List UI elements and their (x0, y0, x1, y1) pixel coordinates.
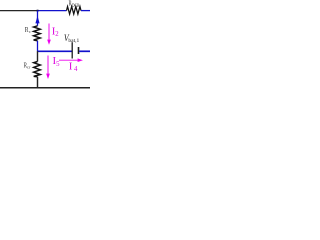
resistor R_DCR (67, 7, 82, 15)
svg-text:bat,1: bat,1 (68, 38, 79, 44)
wire middle blue right (79, 50, 90, 52)
battery V_bat,1 short plate (78, 47, 80, 54)
svg-text:cr: cr (27, 65, 31, 70)
wire middle blue left (38, 50, 73, 52)
svg-text:I: I (69, 61, 73, 73)
battery V_bat,1 long plate (71, 42, 73, 58)
node junction top (37, 10, 39, 12)
wire vertical black upper lead bottom branch (37, 51, 39, 61)
resistor R_cr (34, 62, 41, 77)
svg-text:4: 4 (74, 66, 78, 73)
wire top blue segment (38, 10, 67, 12)
current arrow blue (up) (35, 16, 39, 24)
svg-text:5: 5 (56, 61, 60, 68)
wire vertical blue lower lead (37, 41, 39, 51)
current arrow I5 (47, 56, 49, 75)
svg-text:DCR: DCR (72, 3, 80, 9)
wire top-left (black) (0, 10, 38, 12)
wire top-right blue (81, 10, 90, 12)
svg-text:c: c (29, 29, 31, 34)
svg-text:2: 2 (55, 31, 59, 38)
resistor R_C (34, 26, 41, 41)
current arrow I4 (59, 59, 79, 61)
wire vertical black lower lead bottom branch (37, 77, 39, 88)
current arrow I2 (48, 24, 50, 41)
wire bottom (black) (0, 87, 90, 89)
wire vertical blue upper lead (37, 11, 39, 26)
